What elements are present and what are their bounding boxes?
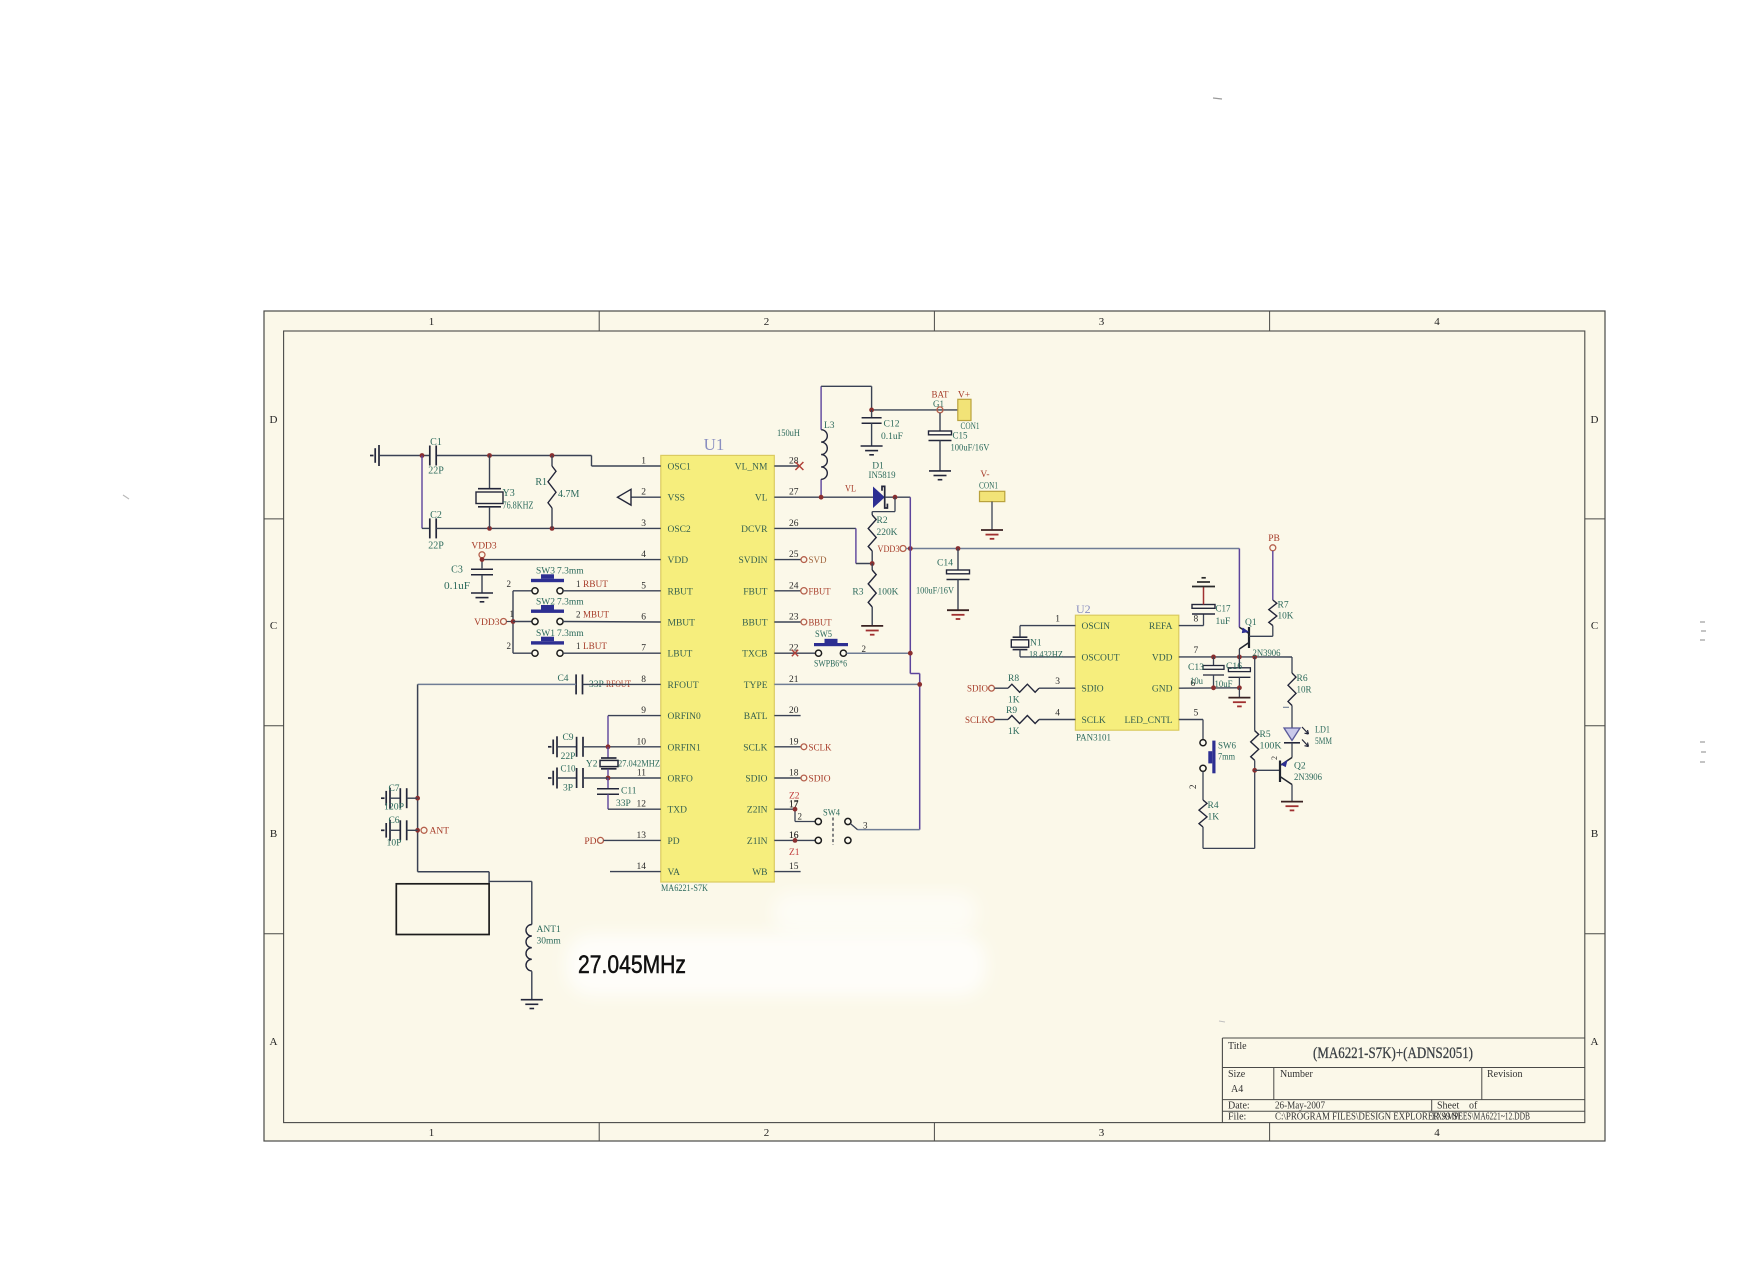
svg-text:TXD: TXD	[668, 806, 688, 816]
svg-text:SDIO: SDIO	[967, 685, 988, 695]
svg-text:CON1: CON1	[961, 421, 980, 431]
svg-text:VDD3: VDD3	[878, 545, 900, 555]
wire D1 cathode to vertical bus	[885, 496, 911, 498]
grid column ticks	[599, 311, 1269, 1141]
ground (C10 left)	[548, 768, 557, 789]
svg-text:N1: N1	[1030, 639, 1042, 649]
wire TXD pin12 net	[608, 808, 661, 810]
junction bus/VDD3	[511, 619, 516, 624]
svg-text:MBUT: MBUT	[668, 619, 696, 629]
svg-text:7: 7	[1194, 646, 1199, 656]
svg-text:PB: PB	[1268, 534, 1280, 544]
capacitor C1 22P	[428, 437, 444, 477]
svg-text:R9: R9	[1006, 706, 1017, 716]
wire SW5 to vertical bus	[847, 652, 911, 654]
junction Z1IN	[793, 838, 798, 843]
svg-text:MBUT: MBUT	[583, 611, 609, 621]
svg-text:C11: C11	[621, 787, 637, 797]
capacitor C13 10u	[1188, 657, 1224, 688]
svg-text:SW4: SW4	[823, 809, 840, 819]
junction VDD/C13	[1211, 655, 1216, 660]
svg-text:OSCIN: OSCIN	[1082, 622, 1111, 632]
U2 pin numbers	[1055, 615, 1198, 719]
svg-text:LBUT: LBUT	[668, 650, 693, 660]
svg-text:VDD3: VDD3	[471, 542, 497, 552]
svg-text:8: 8	[641, 675, 646, 685]
svg-text:12: 12	[637, 800, 647, 810]
capacitor C2 22P	[428, 510, 444, 552]
svg-text:BATL: BATL	[744, 712, 768, 722]
svg-text:EXAMPLES\MA6221~12.DDB: EXAMPLES\MA6221~12.DDB	[1432, 1112, 1530, 1123]
svg-text:2: 2	[641, 488, 646, 498]
svg-text:R7: R7	[1278, 601, 1289, 611]
svg-text:D1: D1	[872, 462, 884, 472]
junction D1/R2	[893, 495, 898, 500]
svg-text:100uF/16V: 100uF/16V	[951, 444, 990, 454]
svg-text:(MA6221-S7K)+(ADNS2051): (MA6221-S7K)+(ADNS2051)	[1313, 1045, 1473, 1062]
net label RFOUT	[606, 680, 631, 690]
port SVD (pin25)	[774, 556, 826, 566]
transistor Q2 2N3906	[1255, 756, 1323, 785]
inverted ground above C17	[1192, 578, 1215, 587]
svg-text:2: 2	[507, 641, 512, 651]
svg-text:VDD: VDD	[668, 556, 689, 566]
grid labels columns	[429, 316, 1441, 1139]
ground below R3	[861, 626, 883, 635]
svg-text:2: 2	[1270, 756, 1279, 760]
connector CON1 V-	[979, 470, 1005, 530]
svg-text:4: 4	[1434, 1127, 1440, 1139]
svg-text:of: of	[1469, 1101, 1478, 1112]
junction RFOUT/C7	[415, 796, 420, 801]
ground below U2 GND	[1228, 688, 1250, 707]
svg-text:22P: 22P	[561, 752, 576, 762]
net label MBUT (pin 6) with pin2 mark	[576, 610, 609, 621]
junction GND/C16	[1237, 685, 1242, 690]
svg-text:VL_NM: VL_NM	[735, 463, 768, 473]
svg-text:RFOUT: RFOUT	[668, 681, 699, 691]
wire VDD pin4 net	[482, 558, 661, 569]
junction R2/R3/DCVR	[870, 561, 875, 566]
svg-text:IN5819: IN5819	[869, 471, 896, 481]
svg-text:27: 27	[789, 488, 799, 498]
wire VDD pin7 net (U2)	[1179, 656, 1292, 658]
junction R5/Q2 base	[1252, 768, 1257, 773]
svg-text:3: 3	[863, 821, 868, 831]
red X at pin22	[792, 650, 798, 656]
svg-text:C16: C16	[1226, 662, 1242, 672]
svg-text:1: 1	[429, 316, 435, 328]
ground below C14	[947, 610, 969, 619]
resistor R8 1K	[994, 674, 1075, 706]
wire VL pin27 net	[774, 496, 873, 498]
svg-text:2: 2	[576, 610, 581, 620]
resistor R3 100K	[852, 564, 898, 626]
svg-text:1: 1	[576, 641, 581, 651]
svg-text:Q2: Q2	[1294, 762, 1306, 772]
svg-text:V-: V-	[980, 470, 989, 480]
svg-text:A4: A4	[1231, 1084, 1243, 1095]
svg-text:Y3: Y3	[503, 488, 515, 499]
svg-text:R2: R2	[877, 516, 888, 526]
transistor Q1 2N3906	[1239, 549, 1280, 660]
wire RFOUT net to antenna box	[418, 684, 661, 883]
U1 right pin numbers 28-15	[789, 457, 799, 873]
wire Q2 collector to ground	[1291, 785, 1293, 802]
svg-text:Title: Title	[1228, 1041, 1247, 1052]
wire GND pin6 net (U2)	[1179, 687, 1240, 689]
junction Y2 bottom	[606, 776, 611, 781]
U2 designator	[1076, 602, 1091, 616]
svg-text:A: A	[1591, 1036, 1599, 1048]
svg-text:WB: WB	[752, 868, 767, 878]
svg-text:TYPE: TYPE	[744, 681, 768, 691]
svg-text:100K: 100K	[1260, 742, 1282, 752]
VSS arrow port (pin 2)	[618, 489, 661, 505]
ground (C9 left)	[548, 736, 557, 757]
switch SW4 (Z axis)	[815, 809, 868, 846]
antenna box	[396, 884, 489, 935]
junction VDD3/C3	[480, 557, 485, 562]
net label Z2 and wire Z2IN pin17	[774, 792, 815, 822]
ground below C15	[929, 471, 951, 480]
svg-text:1K: 1K	[1008, 727, 1020, 737]
svg-text:C17: C17	[1216, 605, 1231, 615]
ground (C7 left)	[381, 788, 390, 809]
svg-text:14: 14	[637, 862, 647, 872]
svg-text:120P: 120P	[384, 803, 404, 813]
wire vertical bus from D1 to TYPE and SW4	[858, 497, 920, 829]
svg-text:1: 1	[641, 457, 646, 467]
svg-text:2: 2	[798, 812, 803, 822]
svg-text:LED_CNTL: LED_CNTL	[1124, 716, 1172, 726]
ground below C12	[861, 446, 883, 455]
wire VL_NM pin28 stub with no-connect X	[774, 462, 803, 470]
svg-text:26: 26	[789, 519, 799, 529]
grid labels rows	[270, 414, 1599, 1048]
svg-text:10K: 10K	[1278, 612, 1294, 622]
svg-text:10u: 10u	[1190, 677, 1203, 687]
wire ANT1 to ground	[531, 971, 533, 999]
ground (OSC1 net, left)	[370, 445, 379, 466]
wire LED to Q2 emitter	[1291, 743, 1293, 758]
svg-text:1K: 1K	[1008, 696, 1020, 706]
svg-text:21: 21	[789, 675, 799, 685]
capacitor C14 100uF/16V	[916, 549, 970, 611]
svg-text:C10: C10	[561, 765, 576, 775]
title block text Date row	[1228, 1101, 1478, 1112]
svg-text:Revision: Revision	[1487, 1069, 1523, 1080]
junction OSC1/R1	[550, 453, 555, 458]
resistor R5 100K	[1251, 657, 1282, 770]
svg-text:VSS: VSS	[668, 494, 685, 504]
svg-text:SCLK: SCLK	[965, 716, 988, 726]
svg-text:R5: R5	[1260, 730, 1271, 740]
wire BATL pin20 stub	[774, 715, 800, 717]
junction OSC2/Y3	[487, 526, 492, 531]
svg-text:ANT: ANT	[430, 827, 450, 837]
capacitor C4 33P in RFOUT line	[557, 674, 603, 694]
svg-text:SW5: SW5	[815, 630, 832, 640]
svg-text:1: 1	[576, 579, 581, 589]
svg-text:RBUT: RBUT	[583, 580, 608, 590]
sheet outer border	[264, 311, 1605, 1141]
power port VDD3 (at C3)	[471, 542, 497, 558]
svg-text:1: 1	[510, 609, 515, 619]
svg-text:Date:: Date:	[1228, 1101, 1250, 1112]
svg-text:File:: File:	[1228, 1112, 1246, 1123]
diode D1 IN5819 schottky	[869, 462, 896, 509]
svg-text:28: 28	[789, 457, 799, 467]
junction VDD3/vertical bus	[908, 546, 913, 551]
svg-text:8: 8	[1194, 615, 1199, 625]
svg-text:2: 2	[764, 316, 770, 328]
svg-text:SDIO: SDIO	[745, 775, 767, 785]
resistor R7 10K	[1269, 551, 1294, 637]
svg-text:22P: 22P	[428, 466, 444, 477]
svg-text:R3: R3	[852, 588, 863, 598]
svg-text:C1: C1	[430, 437, 442, 448]
title text (MA6221-S7K)+(ADNS2051)	[1313, 1045, 1473, 1062]
port FBUT (pin24)	[774, 587, 830, 597]
port PD (pin13)	[584, 837, 660, 847]
junction OSC2/R1	[550, 526, 555, 531]
junction RFOUT/C6 ANT	[415, 828, 420, 833]
wire SW6 to R4	[1188, 771, 1203, 800]
svg-text:5: 5	[1194, 709, 1199, 719]
U1 designator	[704, 435, 725, 454]
svg-text:R4: R4	[1208, 801, 1219, 811]
svg-text:11: 11	[637, 769, 646, 779]
svg-text:2: 2	[1188, 785, 1198, 790]
crystal N1 18.432HZ	[1011, 626, 1075, 661]
svg-text:7.3mm: 7.3mm	[557, 598, 584, 608]
ground below CON1 V-	[981, 530, 1003, 539]
port SDIO (U2)	[967, 685, 994, 695]
svg-text:150uH: 150uH	[777, 429, 800, 439]
svg-text:1uF: 1uF	[1216, 617, 1231, 627]
junction SW5/vertical bus	[908, 651, 913, 656]
svg-text:BBUT: BBUT	[742, 619, 768, 629]
svg-text:7mm: 7mm	[1218, 753, 1236, 763]
svg-text:ORFIN0: ORFIN0	[668, 712, 702, 722]
white scan blob 2	[772, 892, 977, 934]
svg-text:Q1: Q1	[1245, 618, 1257, 628]
svg-text:2: 2	[764, 1127, 770, 1139]
svg-text:B: B	[270, 828, 277, 840]
svg-text:3P: 3P	[563, 784, 573, 794]
junction VDD3/C14	[956, 546, 961, 551]
grid row ticks	[264, 519, 1605, 934]
svg-text:5: 5	[641, 581, 646, 591]
port SCLK (pin19)	[774, 743, 831, 753]
U2 part number PAN3101	[1076, 734, 1111, 744]
crystal Y2 27.042MHZ	[586, 747, 660, 778]
svg-text:Size: Size	[1228, 1069, 1246, 1080]
svg-text:VDD3: VDD3	[474, 618, 500, 628]
svg-text:MA6221-S7K: MA6221-S7K	[661, 884, 708, 894]
capacitor C15 100uF/16V	[929, 413, 990, 471]
svg-text:R1: R1	[535, 477, 547, 488]
svg-text:10R: 10R	[1297, 686, 1313, 696]
svg-text:C12: C12	[884, 420, 900, 430]
inductor ANT1 30mm	[526, 924, 561, 970]
svg-text:220K: 220K	[877, 528, 898, 538]
svg-text:C: C	[1591, 620, 1598, 632]
svg-text:OSC1: OSC1	[668, 463, 691, 473]
junction GND/C13	[1211, 685, 1216, 690]
svg-text:SW1: SW1	[536, 629, 555, 639]
svg-text:LBUT: LBUT	[583, 642, 607, 652]
U1 right pin names	[735, 463, 768, 879]
capacitor C6 10P	[387, 816, 418, 849]
inductor L3 150uH	[777, 386, 835, 497]
svg-text:100uF/16V: 100uF/16V	[916, 587, 954, 597]
schematic sheet background	[264, 311, 1605, 1141]
svg-text:Z2IN: Z2IN	[747, 806, 768, 816]
port BAT G1	[932, 391, 949, 413]
svg-text:PD: PD	[668, 837, 680, 847]
switch SW3 7.3mm	[507, 567, 661, 594]
svg-text:ANT1: ANT1	[537, 925, 562, 935]
ground below ANT1	[521, 1000, 543, 1009]
port ANT	[421, 827, 449, 837]
svg-text:D: D	[270, 414, 278, 426]
svg-text:C3: C3	[451, 565, 463, 576]
svg-text:19: 19	[789, 737, 799, 747]
svg-text:D: D	[1591, 414, 1599, 426]
svg-text:1K: 1K	[1208, 813, 1220, 823]
svg-text:25: 25	[789, 550, 799, 560]
svg-text:C15: C15	[953, 432, 968, 442]
svg-text:2: 2	[507, 579, 512, 589]
junction Z2IN	[793, 807, 798, 812]
junction VDD/R5	[1252, 655, 1257, 660]
svg-text:C: C	[270, 620, 277, 632]
wire box to ANT1	[489, 881, 532, 924]
svg-text:2N3906: 2N3906	[1253, 649, 1281, 659]
junction VDD/C16 Q1	[1237, 655, 1242, 660]
wire ORFO pin11 net	[608, 777, 661, 779]
title block text Size / A4 / Number / Revision	[1228, 1069, 1523, 1095]
svg-text:27.045MHz: 27.045MHz	[578, 951, 686, 979]
U2 right pin names	[1124, 622, 1172, 726]
svg-text:R8: R8	[1008, 674, 1019, 684]
svg-text:SW6: SW6	[1218, 742, 1236, 752]
wire DCVR pin26 net	[774, 528, 872, 563]
svg-text:FBUT: FBUT	[743, 587, 767, 597]
wire R4 to Q2 base node	[1203, 770, 1255, 848]
svg-text:BBUT: BBUT	[809, 619, 832, 629]
svg-text:Number: Number	[1280, 1069, 1313, 1080]
svg-text:4: 4	[1055, 709, 1060, 719]
resistor R1 4.7M	[535, 456, 579, 529]
svg-text:30mm: 30mm	[537, 937, 562, 947]
svg-text:SDIO: SDIO	[1082, 685, 1104, 695]
svg-text:TXCB: TXCB	[742, 650, 767, 660]
crystal Y3 76.8KHZ	[476, 456, 534, 529]
svg-text:ORFO: ORFO	[668, 775, 693, 785]
switch SW6 7mm	[1200, 740, 1236, 774]
scan speck marks	[123, 98, 1706, 1022]
svg-text:SW2: SW2	[536, 598, 555, 608]
svg-text:REFA: REFA	[1149, 622, 1173, 632]
title block text File row	[1228, 1112, 1530, 1123]
IC U1 body	[661, 455, 775, 882]
svg-text:VL: VL	[845, 485, 856, 495]
net label LBUT (pin 7) with pin1 mark	[576, 641, 607, 652]
svg-text:27.042MHZ: 27.042MHZ	[618, 760, 660, 770]
svg-text:R6: R6	[1297, 674, 1308, 684]
svg-text:C13: C13	[1188, 663, 1204, 673]
svg-text:18: 18	[789, 769, 799, 779]
resistor R9 1K	[994, 706, 1075, 737]
svg-text:10: 10	[637, 737, 647, 747]
wire VDD3 net horizontal	[906, 548, 1239, 550]
title block frame	[1222, 1038, 1584, 1123]
U1 left pin numbers 1-14	[637, 457, 647, 873]
svg-text:7.3mm: 7.3mm	[557, 567, 584, 577]
svg-text:C6: C6	[388, 816, 399, 826]
svg-text:DCVR: DCVR	[741, 525, 768, 535]
sheet inner border	[284, 331, 1585, 1123]
svg-text:4: 4	[641, 550, 646, 560]
switch SW2 7.3mm	[510, 598, 661, 625]
port PB	[1268, 534, 1280, 551]
wire button bus vertical	[512, 591, 514, 653]
capacitor C16 10uF	[1215, 657, 1251, 690]
ground (C6 left)	[381, 820, 390, 841]
capacitor C17 1uF (REFA)	[1179, 587, 1231, 627]
svg-text:LD1: LD1	[1315, 726, 1330, 736]
svg-text:SWPB6*6: SWPB6*6	[814, 660, 847, 670]
svg-text:VDD: VDD	[1152, 653, 1173, 663]
U1 left pin names	[668, 463, 702, 879]
svg-text:76.8KHZ: 76.8KHZ	[503, 501, 534, 512]
junction C12 top	[869, 408, 874, 413]
net label VL	[845, 485, 856, 495]
switch SW1 7.3mm	[507, 629, 661, 656]
wire L3 top to C12/BAT node	[821, 386, 872, 410]
title block text Title	[1228, 1041, 1247, 1052]
svg-text:C2: C2	[430, 510, 442, 521]
capacitor C11 33P	[597, 778, 637, 809]
capacitor C7 120P	[384, 784, 418, 813]
svg-text:OSC2: OSC2	[668, 525, 691, 535]
svg-text:24: 24	[789, 581, 799, 591]
svg-text:ORFIN1: ORFIN1	[668, 743, 702, 753]
svg-text:L3: L3	[824, 421, 835, 431]
svg-text:C9: C9	[562, 733, 573, 743]
wire C2 branch vertical	[422, 456, 430, 529]
port SCLK (U2)	[965, 716, 994, 726]
capacitor C10 3P	[557, 765, 608, 794]
svg-text:U1: U1	[704, 435, 725, 454]
svg-text:C14: C14	[937, 559, 953, 569]
svg-text:SCLK: SCLK	[743, 743, 767, 753]
U1 part number MA6221-S7K	[661, 884, 708, 894]
svg-text:SCLK: SCLK	[809, 743, 832, 753]
svg-text:VA: VA	[668, 868, 681, 878]
ground below C3	[471, 593, 493, 602]
svg-text:5MM: 5MM	[1315, 737, 1332, 747]
svg-text:Z1IN: Z1IN	[747, 837, 768, 847]
svg-text:Y2: Y2	[586, 760, 598, 770]
svg-text:SW3: SW3	[536, 567, 555, 577]
frequency text 27.045MHz	[578, 951, 686, 979]
svg-text:3: 3	[1099, 316, 1105, 328]
svg-text:SCLK: SCLK	[1082, 716, 1106, 726]
